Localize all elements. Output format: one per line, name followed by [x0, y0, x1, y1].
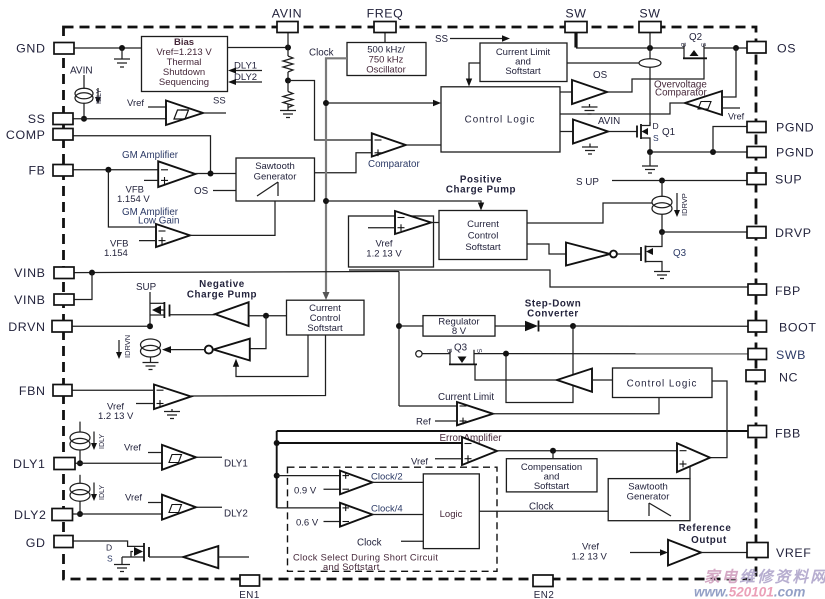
wire overvoltage comparator output to control logic — [560, 103, 685, 114]
block U-logic (Logic) — [423, 474, 479, 549]
label GM Amplifier — [122, 150, 179, 161]
wire Vref to SS comparator — [127, 98, 166, 109]
pin EN2 bottom — [533, 575, 554, 599]
op-amp U-avindrv (AVIN driver) — [573, 120, 608, 144]
op-amp U-osdrv (OS driver) — [572, 80, 607, 104]
wire PGND rail — [650, 151, 747, 153]
wire control logic to AVIN driver — [560, 131, 573, 133]
wire Vref to reference buffer — [572, 542, 669, 563]
wire VINB2 riser — [73, 273, 92, 300]
svg-text:PGND: PGND — [776, 146, 814, 160]
wire current limit to sense ellipse — [567, 62, 639, 64]
svg-text:Vref: Vref — [728, 112, 745, 122]
op-amp U-pwm2 (step-down PWM comparator) — [677, 443, 710, 472]
inverter U-pinv (positive pump driver) — [566, 243, 617, 266]
pin COMP — [6, 128, 73, 142]
svg-text:Converter: Converter — [527, 309, 579, 320]
svg-text:Vref: Vref — [125, 493, 142, 504]
svg-text:FBN: FBN — [19, 384, 46, 398]
current source I-DLY1 — [70, 422, 90, 464]
op-amp U-gm2 (GM Amplifier Low Gain) — [156, 224, 190, 247]
wire driver node to CCS- — [249, 315, 287, 317]
wire DLY2 pin to comparator — [73, 513, 163, 515]
wire clock2 output — [372, 481, 423, 483]
node DRVN junction — [147, 323, 153, 329]
node DLY1 junction — [77, 460, 83, 466]
svg-text:Q3: Q3 — [454, 343, 468, 354]
svg-text:VINB: VINB — [14, 266, 45, 280]
wire FBB to clock4 comparator — [277, 507, 340, 509]
ground (OS driver) — [582, 104, 598, 114]
wire control logic to OS driver — [560, 91, 572, 93]
svg-text:1.2 13 V: 1.2 13 V — [98, 411, 134, 422]
svg-text:BOOT: BOOT — [779, 321, 817, 335]
svg-text:Reference: Reference — [679, 523, 732, 534]
svg-text:DLY1: DLY1 — [224, 459, 248, 470]
wire DRVN pin — [72, 325, 150, 327]
block U-ccsp (positive Current Control Softstart) — [439, 211, 527, 260]
svg-text:Current Limit: Current Limit — [438, 392, 494, 403]
op-amp U-ck2 (Clock/2 comparator) — [340, 471, 372, 495]
svg-text:D: D — [653, 121, 659, 131]
svg-text:Sawtooth: Sawtooth — [255, 161, 295, 172]
svg-text:IDRVP: IDRVP — [680, 193, 689, 216]
label Negative Charge Pump — [187, 279, 257, 301]
svg-text:SWB: SWB — [776, 348, 806, 362]
transistor Q1 — [608, 121, 675, 152]
node SWB sense circle — [416, 351, 422, 357]
node SUP junction — [659, 178, 665, 184]
pin DRVP — [747, 226, 812, 240]
svg-text:FBB: FBB — [775, 427, 801, 441]
watermark — [694, 568, 825, 599]
svg-text:Negative: Negative — [199, 279, 245, 290]
current source I-AVIN (softstart) — [70, 66, 93, 119]
svg-text:GD: GD — [26, 536, 46, 550]
label OS driver — [593, 70, 608, 81]
svg-text:Vref: Vref — [124, 443, 141, 454]
svg-text:AVIN: AVIN — [272, 7, 302, 21]
wire Vref to FBN comparator — [98, 402, 154, 423]
wire DLY1 comparator output — [196, 457, 248, 469]
svg-text:Output: Output — [691, 535, 727, 546]
pin SUP — [747, 173, 802, 187]
wire CCS- to inverter enable arrow — [233, 335, 308, 377]
svg-text:OS: OS — [593, 70, 608, 81]
wire SUP drop (negative pump) — [136, 282, 157, 326]
label DLY1 input arrow — [228, 61, 262, 74]
wire Ref to current limit — [416, 417, 457, 428]
ground (GD FET) — [114, 565, 130, 572]
node Q1 source junction — [647, 149, 653, 155]
svg-text:0.6 V: 0.6 V — [296, 518, 319, 529]
current source I-DLY2 — [70, 475, 90, 514]
svg-text:SS: SS — [435, 34, 449, 45]
label Current Limit — [438, 392, 494, 403]
wire logic clock output to sawtooth2 — [479, 502, 608, 513]
wire error amp output to PWM comparator — [497, 450, 677, 452]
wire FBN comparator output to CCS- — [191, 335, 326, 396]
svg-text:FB: FB — [28, 164, 45, 178]
block U-comp (Compensation and Softstart) — [506, 459, 597, 492]
label AVIN driver — [598, 116, 620, 127]
op-amp U-gm1 (GM Amplifier) — [158, 161, 195, 187]
label Positive Charge Pump — [446, 175, 516, 196]
svg-text:GND: GND — [16, 42, 45, 56]
svg-text:Charge Pump: Charge Pump — [446, 185, 516, 196]
node FBB error amp junction — [274, 440, 280, 446]
svg-text:DLY1: DLY1 — [13, 457, 45, 471]
wire clock node to positive pump softstart — [326, 201, 484, 211]
wire inverter to Q3 gate — [617, 253, 641, 255]
wire SW2 drop — [649, 31, 651, 48]
svg-text:AVIN: AVIN — [598, 116, 620, 127]
wire to compensation block — [552, 451, 554, 459]
svg-text:SUP: SUP — [136, 282, 157, 293]
op-amp U-ndrv (negative pump driver) — [215, 302, 249, 326]
resistor R2 — [283, 81, 293, 111]
wire CCS+ to inverter — [527, 244, 566, 254]
wire clock vertical (gray) — [323, 58, 348, 300]
node BOOT junction — [570, 323, 576, 329]
wire DRVP pin — [662, 231, 747, 233]
svg-text:Vref: Vref — [411, 457, 428, 468]
pin NC — [746, 370, 798, 385]
wire GD driver input — [218, 556, 249, 558]
node regulator junction — [396, 323, 402, 329]
diode D1 (boot diode) — [495, 321, 573, 332]
op-amp U-comp1 (PWM Comparator) — [372, 133, 406, 156]
node FBB clock2 junction — [274, 473, 280, 479]
label Clock/2 — [371, 472, 403, 483]
svg-text:SUP: SUP — [775, 173, 802, 187]
wire SUP rail — [576, 177, 747, 188]
wire divider to comparator minus — [288, 81, 372, 141]
svg-text:Softstart: Softstart — [505, 66, 541, 77]
current sense ellipse — [639, 48, 661, 125]
op-amp U-erramp (Error Amplifier) — [462, 437, 497, 465]
wire Bias to AVIN node — [228, 47, 289, 49]
label IDRVN arrow — [116, 335, 132, 359]
pin VINB2 — [14, 293, 74, 307]
label IDRVP arrow — [674, 193, 689, 217]
label IDLY arrow (SS source) — [95, 88, 103, 104]
node AVIN junction — [285, 45, 291, 51]
svg-text:Vref: Vref — [127, 98, 144, 109]
label Clock Select caption — [293, 553, 438, 572]
wire SS to current limit block arrow — [435, 34, 510, 45]
wire DLY2 comparator output — [196, 507, 248, 519]
svg-text:1.154 V: 1.154 V — [117, 194, 150, 205]
svg-text:Clock: Clock — [309, 48, 334, 59]
block U-ccsn (negative Current Control Softstart) — [287, 300, 365, 335]
wire PGND1 riser — [713, 127, 747, 153]
svg-text:Clock/4: Clock/4 — [371, 504, 403, 515]
ground (FBN comparator) — [164, 409, 180, 419]
svg-text:Q3: Q3 — [673, 248, 687, 259]
wire OS node to overvoltage comparator — [722, 48, 736, 97]
wire control logic2 to driver — [592, 379, 613, 381]
svg-text:S UP: S UP — [576, 177, 599, 188]
pin OS — [747, 42, 796, 56]
pin EN1 bottom — [239, 575, 260, 599]
label GM Amplifier Low Gain — [122, 207, 179, 227]
wire VFB to GM1 plus — [117, 180, 158, 205]
wire negative FET gate — [170, 314, 216, 316]
svg-text:PGND: PGND — [776, 121, 814, 135]
pin DLY1 — [13, 457, 75, 471]
svg-text:IDLY: IDLY — [99, 485, 106, 500]
wire FBB to clock2 comparator — [277, 475, 340, 477]
wire VINB vertical to regulator and current limit — [398, 272, 400, 407]
svg-text:Control Logic: Control Logic — [465, 115, 536, 126]
wire VINB to regulator — [399, 325, 423, 327]
wire Q3 gate from driver — [475, 365, 557, 380]
node SS junction — [81, 116, 87, 122]
wire DLY1 pin to comparator — [75, 462, 162, 464]
pin DLY2 — [14, 508, 72, 522]
pin VINB1 — [14, 266, 74, 280]
op-amp U-ss (SS hysteresis comparator) — [166, 101, 203, 126]
node SW2 junction — [647, 45, 653, 51]
op-amp U-fbn (FBN comparator) — [154, 385, 191, 410]
svg-text:Generator: Generator — [627, 492, 670, 503]
wire sawtooth to comparator plus — [315, 153, 372, 173]
svg-text:1.2 13 V: 1.2 13 V — [366, 249, 402, 260]
ground (divider) — [280, 111, 296, 118]
pin VREF — [747, 543, 811, 561]
wire COMP pin to GM output node — [72, 136, 211, 174]
wire FBN pin to comparator — [72, 389, 154, 391]
svg-text:Softstart: Softstart — [465, 242, 501, 253]
block U-osc (500/750 kHz Oscillator) — [347, 43, 426, 76]
svg-text:AVIN: AVIN — [70, 66, 93, 77]
node SWB junction — [503, 351, 509, 357]
svg-text:OS: OS — [194, 186, 209, 197]
svg-text:Generator: Generator — [254, 172, 297, 183]
svg-text:S: S — [107, 554, 113, 564]
wire SW1 drop (thick) — [574, 31, 577, 48]
pin GND — [16, 42, 74, 56]
label DLY2 input arrow — [228, 72, 262, 85]
wire Vref to DLY2 comparator — [125, 493, 162, 504]
wire FB pin — [71, 169, 158, 171]
ground (Q3 source) — [654, 272, 670, 279]
current source I-DRVP — [652, 181, 672, 233]
svg-text:Softstart: Softstart — [307, 323, 343, 334]
svg-text:SS: SS — [28, 112, 46, 126]
node negative driver junction — [263, 313, 269, 319]
block clock select dashed box — [288, 467, 498, 571]
svg-text:GM Amplifier: GM Amplifier — [122, 150, 179, 161]
ground (IDRVN) — [143, 363, 159, 370]
svg-text:DLY2: DLY2 — [14, 508, 46, 522]
op-amp U-ref (Reference buffer) — [668, 540, 701, 566]
wire FBB to error amplifier — [277, 442, 462, 444]
wire driver node to inverter input — [250, 316, 266, 349]
pin SW1 top — [565, 7, 587, 33]
node DRVP junction — [659, 229, 665, 235]
transistor Q-gd — [106, 543, 149, 565]
svg-text:Comparator: Comparator — [368, 159, 420, 170]
pin FB — [28, 164, 73, 178]
wire comparator output to control logic — [406, 144, 441, 146]
label Clock/4 — [371, 504, 403, 515]
svg-text:DLY2: DLY2 — [234, 72, 257, 83]
pin BOOT — [748, 321, 817, 335]
svg-text:Current: Current — [467, 219, 499, 230]
wire BOOT pin — [573, 325, 748, 327]
svg-text:1.154: 1.154 — [104, 248, 128, 259]
svg-text:Q2: Q2 — [689, 32, 702, 43]
svg-text:IDLY: IDLY — [96, 89, 103, 104]
block U-cl1 (Control Logic) — [441, 87, 560, 152]
block U-reg (Regulator 8 V) — [423, 316, 495, 337]
pin SS — [28, 112, 73, 126]
svg-text:DLY2: DLY2 — [224, 509, 248, 520]
svg-text:FBP: FBP — [775, 284, 801, 298]
wire GM1 output to sawtooth — [195, 173, 236, 175]
svg-text:Softstart: Softstart — [534, 481, 570, 492]
node COMP junction — [208, 171, 214, 177]
block U-saw1 (Sawtooth Generator) — [236, 158, 315, 201]
wire Clock into logic — [357, 538, 423, 549]
svg-text:Q1: Q1 — [662, 127, 675, 138]
svg-text:DRVP: DRVP — [775, 226, 812, 240]
wire Vref amp to current control softstart — [431, 222, 439, 224]
svg-text:Clock: Clock — [357, 538, 382, 549]
wire SW rail — [576, 47, 684, 49]
block U-saw2 (Sawtooth Generator step-down) — [608, 479, 690, 521]
block U-vrefamp (positive pump error amp enclosure) — [349, 216, 434, 267]
node FB junction — [105, 167, 111, 173]
svg-text:Clock: Clock — [529, 502, 554, 513]
svg-text:Charge Pump: Charge Pump — [187, 290, 257, 301]
svg-text:VINB: VINB — [14, 293, 45, 307]
pin AVIN top — [272, 7, 302, 33]
svg-text:1.2 13 V: 1.2 13 V — [572, 552, 608, 563]
svg-text:IDLY: IDLY — [99, 434, 106, 449]
wire current limit output to control logic2 — [493, 398, 659, 414]
wire current limit block to control logic arrow — [466, 63, 480, 87]
wire VFB2 to GM2 plus — [104, 239, 156, 260]
svg-text:SW: SW — [565, 7, 586, 21]
wire SS pin to comparator — [73, 118, 166, 120]
current source I-DRVN — [141, 339, 161, 362]
svg-text:IDRVN: IDRVN — [123, 335, 132, 358]
wire reference output to VREF pin — [701, 552, 747, 554]
block U-cl2 (Control Logic step-down) — [613, 368, 713, 398]
svg-text:D: D — [106, 543, 112, 553]
wire GM2 output to sawtooth bottom — [190, 201, 275, 235]
pin PGND2 — [747, 146, 814, 160]
svg-text:OS: OS — [777, 42, 796, 56]
pin SWB — [748, 348, 806, 362]
wire GD pin to FET — [73, 541, 144, 546]
ground (Q1 source) — [642, 152, 658, 173]
transistor Q2 — [679, 32, 707, 58]
wire clock4 output — [372, 514, 423, 516]
wire boot loop to SWB node — [506, 326, 573, 403]
label IDLY1 arrow — [91, 432, 106, 451]
svg-text:EN1: EN1 — [239, 590, 260, 599]
IC boundary dashed border — [64, 27, 757, 579]
pin GD — [26, 536, 73, 551]
node clock-controllogic junction — [323, 100, 329, 106]
wire FB to low-gain amp — [108, 170, 156, 227]
op-amp U-dly1 (DLY1 comparator) — [162, 445, 196, 470]
wire Vref to DLY1 comparator — [124, 443, 162, 454]
label Clock — [309, 48, 334, 59]
op-amp U-pvref (Vref amp) — [368, 211, 431, 234]
svg-text:家电维修资料网: 家电维修资料网 — [704, 568, 825, 586]
op-amp U-dly2 (DLY2 comparator) — [162, 495, 196, 520]
transistor Q3 (positive pump) — [641, 232, 687, 271]
pin FBP — [748, 284, 801, 298]
svg-text:FREQ: FREQ — [367, 7, 404, 21]
label Error Amplifier — [440, 433, 503, 444]
wire CCS+ to current source control — [527, 203, 652, 223]
wire 0.9V to clock2 comparator — [294, 486, 340, 497]
node clock-sawtooth junction — [323, 198, 329, 204]
svg-text:DRVN: DRVN — [8, 320, 45, 334]
svg-text:Ref: Ref — [416, 417, 431, 428]
svg-text:Comparator: Comparator — [655, 88, 707, 99]
block U-cls (Current Limit and Softstart) — [480, 43, 567, 82]
svg-text:VREF: VREF — [776, 546, 811, 560]
wire clock to control logic arrow — [326, 100, 441, 106]
block U-bias: Bias / Thermal Shutdown / Sequencing — [142, 37, 228, 92]
svg-text:DLY1: DLY1 — [234, 61, 257, 72]
svg-text:Logic: Logic — [440, 509, 463, 520]
wire sawtooth2 to PWM comparator — [689, 467, 691, 479]
op-amp U-climit (current limit comparator) — [457, 402, 493, 425]
label IDLY2 arrow — [91, 483, 106, 502]
pin DRVN — [8, 320, 72, 334]
svg-text:NC: NC — [779, 371, 798, 385]
wire SWB sense to current limit — [399, 405, 457, 407]
pin SW2 top — [639, 7, 661, 33]
op-amp U-sddrv (step-down gate driver) — [557, 369, 592, 392]
wire OS triangle output to Q2 gate — [607, 59, 704, 92]
node VINB junction — [89, 270, 95, 276]
transistor Q-neg (negative pump pass FET) — [150, 302, 170, 318]
svg-text:Sequencing: Sequencing — [159, 77, 209, 88]
label Comparator — [368, 159, 420, 170]
wire Vref to overvoltage comparator — [722, 108, 745, 122]
inverter U-gdinv (GD driver) — [149, 546, 218, 568]
svg-text:Clock/2: Clock/2 — [371, 472, 403, 483]
label Step-Down Converter — [525, 299, 582, 320]
svg-text:www.520101.com: www.520101.com — [694, 585, 805, 599]
svg-text:SS: SS — [213, 96, 226, 107]
wire SWB rail — [422, 353, 748, 355]
svg-text:COMP: COMP — [6, 128, 46, 142]
node PGND junction — [710, 149, 716, 155]
node OS junction — [733, 45, 739, 51]
node DLY2 junction — [77, 511, 83, 517]
svg-text:and Softstart: and Softstart — [323, 562, 380, 572]
transistor Q3 (step-down high side) — [445, 343, 483, 365]
node divider junction — [285, 78, 291, 84]
wire FREQ pin drop — [384, 32, 386, 43]
svg-text:SW: SW — [639, 7, 660, 21]
svg-text:0.9 V: 0.9 V — [294, 486, 317, 497]
pin FBB — [748, 426, 801, 441]
ground (AVIN driver) — [582, 144, 598, 155]
svg-text:Control: Control — [468, 231, 499, 242]
pin FBN — [19, 384, 72, 398]
